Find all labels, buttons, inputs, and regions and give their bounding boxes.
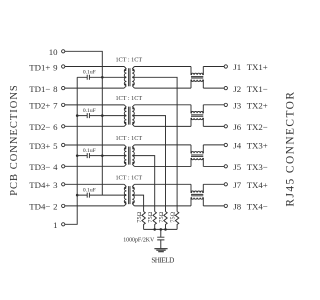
svg-text:6: 6 [53,122,58,132]
svg-text:10: 10 [49,47,58,57]
svg-text:TD4+: TD4+ [29,180,50,190]
svg-text:TD2−: TD2− [29,122,50,132]
svg-text:1000pF/2KV: 1000pF/2KV [123,238,155,244]
svg-text:J7: J7 [233,180,241,190]
svg-text:75Ω: 75Ω [158,211,165,222]
svg-text:TX1+: TX1+ [247,62,268,72]
svg-text:TD3−: TD3− [29,162,50,172]
svg-text:TX3−: TX3− [247,162,268,172]
svg-text:2: 2 [53,202,57,212]
svg-text:0.1uF: 0.1uF [83,187,96,193]
svg-text:TD1−: TD1− [29,84,50,94]
svg-text:J1: J1 [233,62,241,72]
svg-text:5: 5 [53,141,58,151]
svg-text:8: 8 [53,84,58,94]
svg-text:SHIELD: SHIELD [151,257,174,265]
svg-text:TX4+: TX4+ [247,180,268,190]
svg-text:1CT : 1CT: 1CT : 1CT [115,135,142,142]
svg-text:TX3+: TX3+ [247,141,268,151]
svg-text:0.1uF: 0.1uF [83,70,96,76]
svg-text:TD1+: TD1+ [29,62,50,72]
svg-text:RJ45 CONNECTOR: RJ45 CONNECTOR [285,91,297,207]
svg-text:1: 1 [53,220,57,230]
svg-text:TX2+: TX2+ [247,101,268,111]
svg-text:1CT : 1CT: 1CT : 1CT [115,57,142,64]
svg-text:75Ω: 75Ω [147,211,154,222]
svg-text:J6: J6 [233,122,241,132]
svg-text:TX2−: TX2− [247,122,268,132]
svg-text:75Ω: 75Ω [136,211,143,222]
svg-text:7: 7 [53,101,58,111]
svg-text:75Ω: 75Ω [170,211,177,222]
svg-text:PCB CONNECTIONS: PCB CONNECTIONS [9,84,20,196]
svg-text:1CT : 1CT: 1CT : 1CT [115,174,142,181]
svg-text:TD2+: TD2+ [29,101,50,111]
svg-text:J2: J2 [233,84,241,94]
svg-text:1CT : 1CT: 1CT : 1CT [115,95,142,102]
svg-text:TX1−: TX1− [247,84,268,94]
svg-text:J3: J3 [233,101,241,111]
svg-text:TD4−: TD4− [29,202,50,212]
svg-text:J4: J4 [233,141,241,151]
svg-text:TX4−: TX4− [247,202,268,212]
svg-text:0.1uF: 0.1uF [83,148,96,154]
svg-text:J5: J5 [233,162,241,172]
svg-text:3: 3 [53,180,58,190]
svg-text:4: 4 [53,162,58,172]
svg-text:J8: J8 [233,202,241,212]
svg-text:TD3+: TD3+ [29,141,50,151]
svg-text:9: 9 [53,62,58,72]
svg-text:0.1uF: 0.1uF [83,108,96,114]
